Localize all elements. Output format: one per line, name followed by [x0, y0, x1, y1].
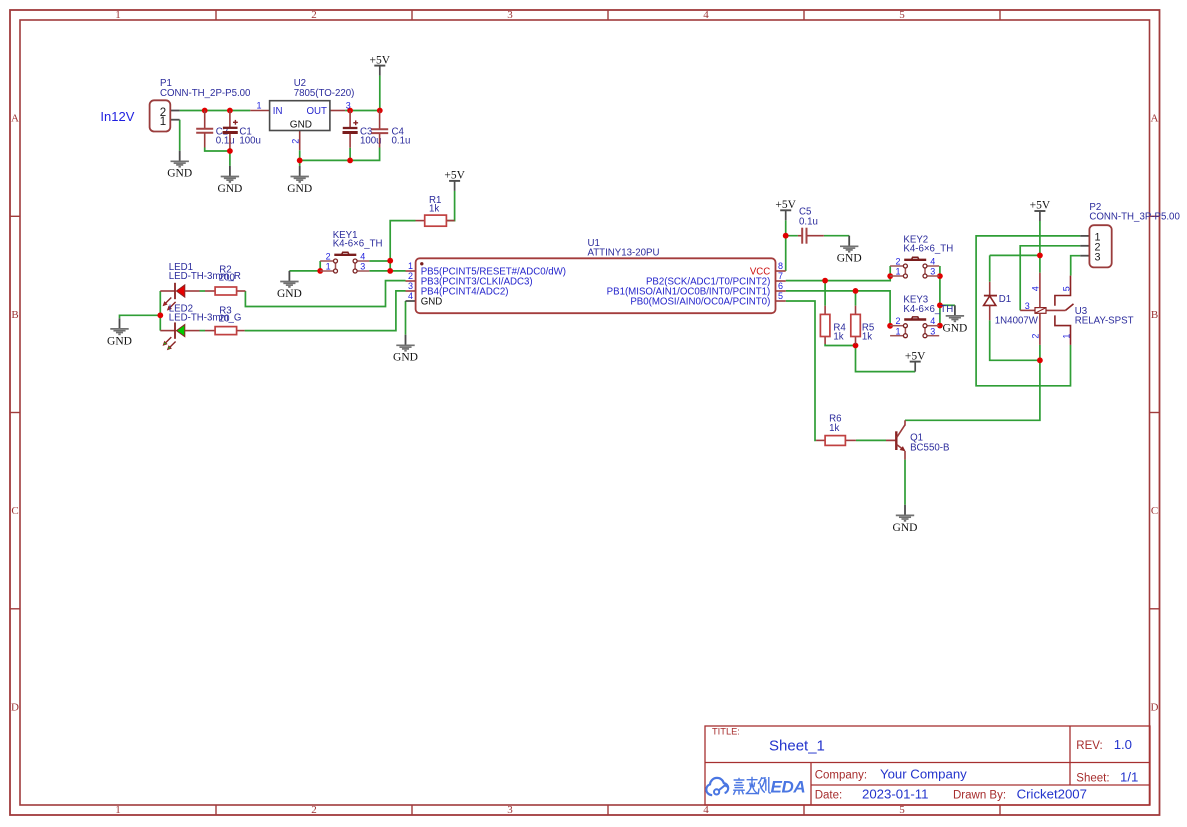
svg-text:Company:: Company: — [815, 770, 867, 782]
svg-text:3: 3 — [507, 804, 513, 816]
wire R6 to Q1 base — [856, 439, 886, 441]
LED LED2 — [160, 304, 241, 350]
net flag GND under Q1 — [893, 505, 918, 534]
switch KEY3 — [890, 295, 953, 338]
svg-text:1k: 1k — [429, 204, 439, 215]
svg-text:Sheet_1: Sheet_1 — [769, 738, 825, 755]
capacitor C1 polarized — [223, 111, 261, 149]
svg-text:3: 3 — [1095, 251, 1101, 263]
net flag GND under KEY1 — [277, 271, 302, 300]
wire LED1 to R2 — [200, 290, 206, 292]
svg-text:1: 1 — [115, 804, 121, 816]
wire LED cathode rail — [159, 291, 161, 331]
wire P2.2 to relay 3 — [1020, 246, 1080, 311]
svg-text:2: 2 — [1030, 334, 1040, 339]
wire D1 bottom to coil node — [990, 320, 1040, 360]
wire C2 bottom to C1 bottom — [205, 148, 230, 152]
wire relay coil 2 down — [1039, 345, 1041, 360]
wire R4 R5 bottom to +5V — [825, 344, 915, 372]
resistor R3 — [205, 306, 245, 335]
wire P2.3 to relay 5 — [1071, 256, 1081, 276]
wire KEY1 pins 2-1 link to GND — [289, 261, 320, 271]
wire U1.2 to R2 — [245, 281, 405, 307]
connector P1 — [150, 78, 251, 132]
wire U2.OUT to +5V rail — [345, 110, 380, 112]
svg-text:IN: IN — [273, 106, 283, 117]
svg-text:C: C — [1151, 505, 1158, 517]
net flag GND at KEY3 — [942, 305, 967, 334]
svg-text:Cricket2007: Cricket2007 — [1017, 786, 1087, 801]
resistor R5 — [851, 306, 874, 344]
svg-text:Sheet:: Sheet: — [1076, 773, 1109, 785]
svg-text:2: 2 — [311, 9, 317, 21]
logo JLCEDA — [706, 777, 771, 796]
capacitor C5 — [798, 207, 824, 244]
svg-text:D1: D1 — [999, 294, 1011, 305]
wire P1.2 to U2.IN — [180, 110, 251, 112]
capacitor C4 — [371, 111, 410, 148]
title block frame — [705, 726, 1150, 805]
transistor Q1 — [886, 420, 949, 459]
svg-text:3: 3 — [346, 100, 351, 110]
resistor R4 — [820, 306, 846, 344]
node In12V — [100, 109, 134, 124]
svg-text:PB0(MOSI/AIN0/OC0A/PCINT0): PB0(MOSI/AIN0/OC0A/PCINT0) — [630, 297, 770, 308]
wire LED2 to R3 — [200, 330, 206, 332]
svg-text:1: 1 — [115, 9, 121, 21]
wire KEY23 node to GND — [940, 304, 955, 306]
wire +5V down to OUT rail — [379, 76, 381, 111]
wire +5V to relay coil 4 — [1039, 221, 1041, 273]
svg-text:2: 2 — [290, 139, 300, 144]
svg-text:1: 1 — [256, 100, 261, 110]
svg-text:4: 4 — [1030, 286, 1040, 291]
wire KEY2 right to KEY3.4 — [939, 266, 941, 326]
resistor R1 — [416, 195, 455, 226]
relay U3 — [1020, 273, 1133, 345]
svg-text:Drawn By:: Drawn By: — [953, 789, 1006, 801]
capacitor C3 polarized — [343, 111, 382, 148]
svg-text:D: D — [1151, 701, 1159, 713]
svg-text:BC550-B: BC550-B — [910, 442, 949, 453]
wire U1.8 to +5V — [785, 220, 787, 271]
svg-text:1: 1 — [408, 261, 413, 271]
svg-text:4: 4 — [703, 804, 709, 816]
wire R4 top — [824, 281, 826, 306]
net flag +5V at U1.8 — [775, 199, 796, 220]
svg-text:1: 1 — [1061, 334, 1071, 339]
svg-text:CONN-TH_2P-P5.00: CONN-TH_2P-P5.00 — [160, 88, 251, 99]
wire Q1 emitter to GND — [904, 460, 906, 505]
svg-text:OUT: OUT — [306, 106, 327, 117]
svg-text:5: 5 — [1061, 286, 1071, 291]
svg-text:1k: 1k — [829, 423, 839, 434]
svg-text:A: A — [11, 113, 19, 125]
wire P1.1 to GND — [179, 120, 181, 151]
svg-text:In12V: In12V — [100, 109, 134, 124]
svg-text:7: 7 — [778, 271, 783, 281]
wire KEY1.4 to node — [369, 260, 390, 262]
net flag GND at C5 — [837, 236, 862, 265]
svg-text:2: 2 — [311, 804, 317, 816]
net flag GND for LEDs — [107, 318, 132, 347]
svg-text:B: B — [1151, 309, 1158, 321]
svg-text:1N4007W: 1N4007W — [995, 315, 1039, 326]
svg-text:3: 3 — [408, 281, 413, 291]
svg-text:5: 5 — [899, 804, 905, 816]
connector P2 — [1080, 202, 1180, 268]
wire U2 gnd rail to GND — [299, 160, 301, 166]
wire Q1 collector to relay coil — [905, 360, 1040, 420]
svg-text:3: 3 — [1025, 301, 1030, 311]
switch KEY1 — [320, 230, 382, 273]
svg-text:4: 4 — [408, 291, 413, 301]
svg-text:TITLE:: TITLE: — [712, 727, 740, 737]
svg-text:20: 20 — [219, 313, 230, 324]
switch KEY2 — [890, 235, 953, 278]
svg-text:ATTINY13-20PU: ATTINY13-20PU — [588, 248, 660, 259]
wire U1.7 to KEY2 — [786, 266, 891, 281]
svg-text:1.0: 1.0 — [1114, 737, 1132, 752]
diode D1 — [984, 282, 1039, 327]
svg-text:RELAY-SPST: RELAY-SPST — [1075, 315, 1134, 326]
wire D1 top to +5V node — [990, 255, 1040, 281]
wire U1.5 to R6 — [786, 301, 816, 440]
svg-text:K4-6×6_TH: K4-6×6_TH — [903, 243, 953, 254]
wire R5 top — [855, 291, 857, 306]
svg-text:GND: GND — [421, 297, 443, 308]
wire U1.3 to R3 — [245, 291, 406, 331]
net flag +5V at relay — [1030, 200, 1051, 221]
svg-text:0.1u: 0.1u — [392, 135, 411, 146]
wire relay 1 to P2.1 — [976, 236, 1080, 386]
wire R1 left to KEY1 net — [390, 221, 415, 271]
wire U1.4 to GND — [405, 301, 407, 335]
resistor R2 — [205, 265, 245, 295]
wire C5 branch — [786, 235, 850, 237]
net flag GND under U1 — [393, 335, 418, 364]
svg-text:Date:: Date: — [815, 789, 843, 801]
svg-text:EDA: EDA — [771, 777, 806, 796]
svg-text:1: 1 — [160, 116, 166, 128]
svg-text:K4-6×6_TH: K4-6×6_TH — [333, 239, 383, 250]
svg-text:1k: 1k — [833, 332, 843, 343]
svg-text:100u: 100u — [239, 135, 261, 146]
title block texts — [712, 727, 1138, 802]
net flag GND under U2 — [287, 166, 312, 195]
svg-text:4: 4 — [703, 9, 709, 21]
wire C3 C4 bottom rail — [300, 148, 380, 161]
svg-text:0.1u: 0.1u — [799, 216, 818, 227]
wire +5V to R1 right — [446, 191, 454, 221]
svg-text:REV:: REV: — [1076, 740, 1102, 752]
net flag GND under C1 — [217, 166, 242, 195]
wire KEY1.3 to U1.1 — [369, 270, 405, 272]
wire C1 bottom to GND — [229, 148, 231, 166]
svg-text:6: 6 — [778, 281, 783, 291]
svg-text:3: 3 — [507, 9, 513, 21]
MCU U1 — [406, 238, 786, 313]
svg-text:1k: 1k — [862, 332, 872, 343]
svg-text:A: A — [1151, 113, 1159, 125]
net flag GND under P1 — [167, 151, 192, 180]
svg-text:1/1: 1/1 — [1120, 770, 1138, 785]
svg-text:5: 5 — [899, 9, 905, 21]
resistor R6 — [816, 414, 856, 446]
svg-text:200: 200 — [219, 273, 236, 284]
svg-text:CONN-TH_3P-P5.00: CONN-TH_3P-P5.00 — [1089, 212, 1180, 223]
svg-text:K4-6×6_TH: K4-6×6_TH — [903, 304, 953, 315]
capacitor C2 — [196, 111, 234, 148]
svg-text:B: B — [11, 309, 18, 321]
svg-text:D: D — [11, 701, 19, 713]
svg-text:GND: GND — [290, 119, 312, 130]
wire C3 bottom stub — [349, 148, 351, 161]
wire LED rail to GND — [120, 315, 161, 318]
net flag +5V below R4 R5 — [905, 350, 926, 371]
svg-text:2: 2 — [408, 271, 413, 281]
svg-text:2023-01-11: 2023-01-11 — [862, 786, 928, 801]
svg-text:C: C — [11, 505, 18, 517]
svg-text:7805(TO-220): 7805(TO-220) — [294, 88, 355, 99]
JUNCTION DOTS — [157, 108, 1042, 364]
LED LED1 — [160, 262, 241, 310]
svg-text:Your Company: Your Company — [880, 767, 967, 782]
regulator U2 — [250, 78, 354, 150]
svg-text:0.1u: 0.1u — [216, 135, 235, 146]
svg-text:100u: 100u — [360, 135, 382, 146]
net flag +5V at R1 — [444, 170, 465, 191]
net flag +5V top left — [370, 54, 391, 75]
wire U1.6 to KEY3 — [786, 291, 890, 326]
svg-text:8: 8 — [778, 261, 783, 271]
svg-text:5: 5 — [778, 291, 783, 301]
